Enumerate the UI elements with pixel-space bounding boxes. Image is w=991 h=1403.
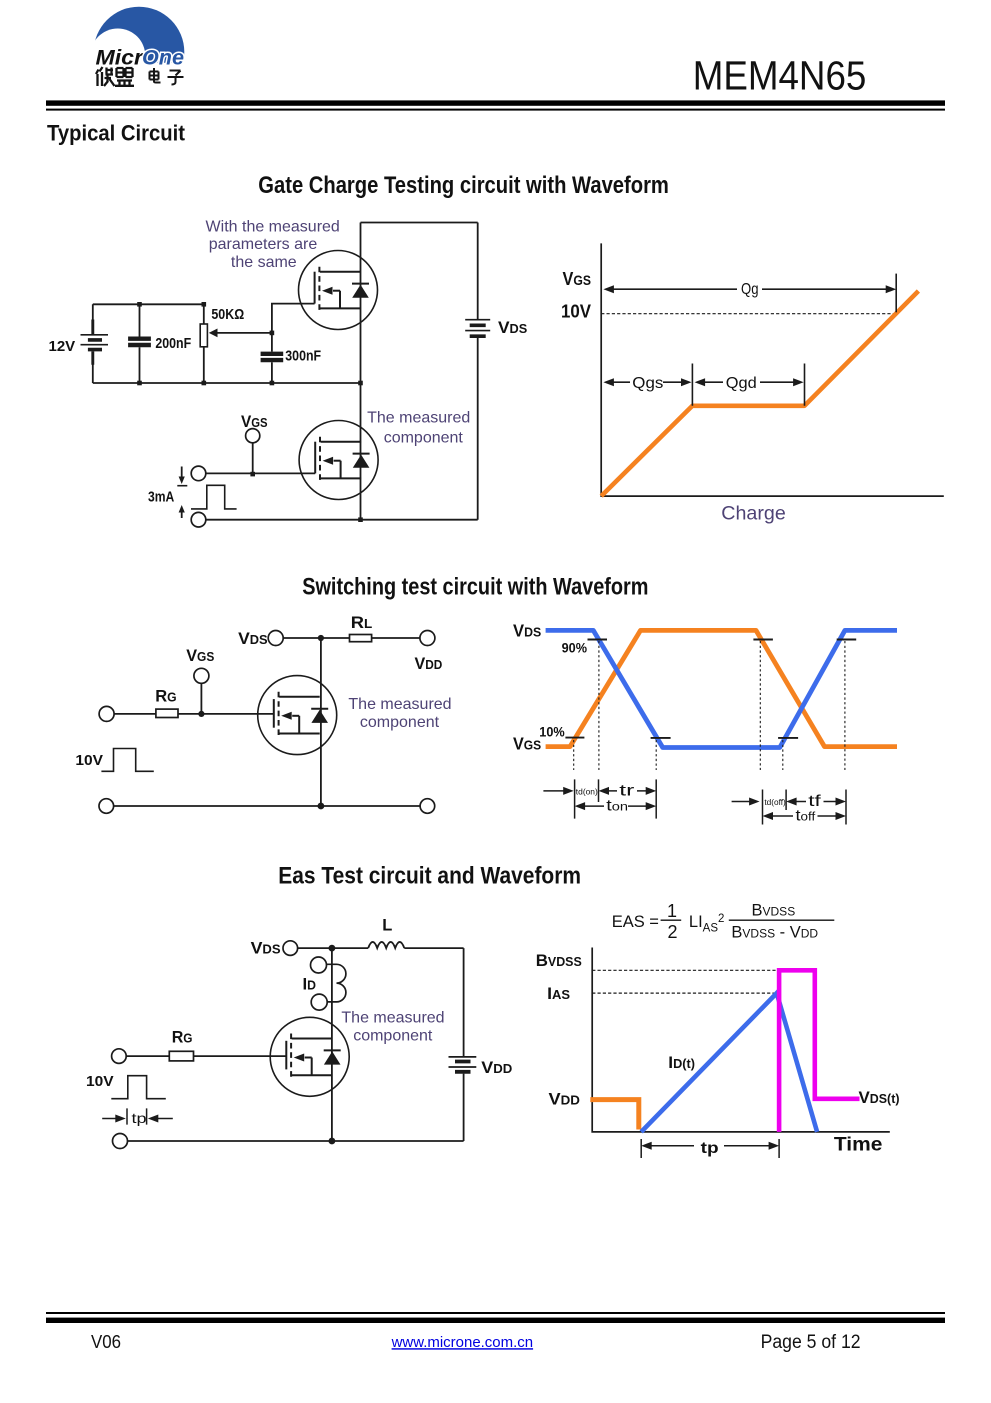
svg-text:tp: tp (132, 1110, 147, 1126)
svg-text:RG: RG (172, 1028, 193, 1047)
svg-text:VDS: VDS (498, 318, 527, 337)
svg-text:1: 1 (667, 901, 677, 921)
svg-text:component: component (360, 714, 440, 731)
svg-text:tr: tr (619, 783, 634, 800)
svg-text:V06: V06 (91, 1332, 121, 1352)
svg-text:IAS: IAS (547, 984, 570, 1003)
svg-text:50KΩ: 50KΩ (211, 307, 244, 323)
svg-text:VDS(t): VDS(t) (859, 1088, 900, 1107)
svg-text:10V: 10V (75, 753, 103, 769)
svg-text:The measured: The measured (367, 410, 470, 427)
svg-text:EAS =: EAS = (612, 913, 659, 931)
svg-text:The measured: The measured (348, 696, 451, 713)
svg-text:VDD: VDD (549, 1090, 580, 1109)
svg-text:BVDSS: BVDSS (752, 902, 796, 920)
svg-text:VDD: VDD (415, 654, 443, 673)
svg-text:BVDSS: BVDSS (536, 951, 582, 970)
svg-text:Switching test circuit with Wa: Switching test circuit with Waveform (302, 573, 648, 600)
svg-text:MEM4N65: MEM4N65 (693, 53, 867, 99)
svg-text:component: component (384, 429, 464, 446)
svg-text:toff: toff (796, 808, 817, 825)
svg-text:200nF: 200nF (155, 336, 191, 352)
svg-text:VDS: VDS (251, 939, 281, 958)
svg-text:VGS: VGS (513, 734, 541, 754)
svg-text:Typical Circuit: Typical Circuit (47, 120, 185, 145)
svg-text:parameters are: parameters are (209, 236, 318, 253)
svg-text:LIAS2: LIAS2 (689, 913, 725, 935)
svg-text:VDD: VDD (481, 1058, 512, 1077)
svg-text:Gate Charge Testing circuit wi: Gate Charge Testing circuit with Wavefor… (258, 172, 669, 199)
svg-text:2: 2 (667, 922, 677, 942)
svg-text:10V: 10V (561, 302, 591, 322)
svg-text:Time: Time (834, 1134, 883, 1156)
svg-text:300nF: 300nF (285, 349, 321, 365)
svg-text:VGS: VGS (563, 269, 592, 289)
svg-text:ID: ID (303, 975, 317, 994)
svg-text:RL: RL (351, 613, 373, 632)
svg-text:Page 5 of 12: Page 5 of 12 (761, 1332, 861, 1353)
svg-text:component: component (353, 1027, 433, 1044)
svg-text:Charge: Charge (721, 503, 786, 525)
svg-text:90%: 90% (562, 640, 588, 656)
svg-text:the same: the same (231, 254, 297, 271)
svg-text:ton: ton (606, 798, 628, 815)
svg-text:VGS: VGS (241, 412, 268, 431)
svg-text:Eas Test circuit and Waveform: Eas Test circuit and Waveform (278, 862, 581, 889)
svg-text:3mA: 3mA (148, 490, 175, 506)
svg-text:Micr: Micr (96, 46, 145, 70)
svg-text:VGS: VGS (186, 646, 214, 665)
svg-text:10%: 10% (539, 724, 565, 740)
svg-text:tf: tf (808, 793, 821, 810)
svg-text:With the measured: With the measured (206, 219, 340, 236)
svg-text:12V: 12V (49, 339, 76, 355)
svg-text:td(on): td(on) (576, 787, 598, 797)
svg-text:td(off): td(off) (764, 797, 786, 807)
svg-text:VDS: VDS (238, 629, 268, 648)
svg-text:ID(t): ID(t) (668, 1053, 695, 1072)
svg-text:L: L (382, 917, 392, 935)
svg-text:10V: 10V (86, 1074, 114, 1090)
svg-text:RG: RG (155, 687, 176, 706)
svg-text:One: One (142, 46, 184, 70)
svg-text:www.microne.com.cn: www.microne.com.cn (391, 1335, 534, 1351)
svg-text:Qgs: Qgs (632, 375, 663, 392)
svg-text:VDS: VDS (513, 621, 542, 641)
svg-text:Qg: Qg (741, 281, 759, 298)
svg-text:Qgd: Qgd (726, 375, 757, 392)
svg-text:The measured: The measured (341, 1009, 444, 1026)
svg-text:BVDSS - VDD: BVDSS - VDD (731, 923, 818, 941)
svg-text:tp: tp (701, 1140, 719, 1157)
